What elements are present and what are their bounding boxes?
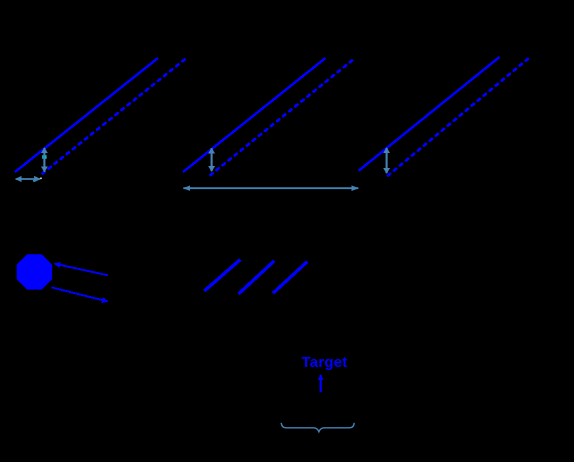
outgoing ray arrow (head away)	[51, 287, 108, 301]
target hatch segment 2	[239, 261, 275, 294]
pulse 1 solid line	[15, 58, 158, 172]
white dot at dashed start	[40, 177, 42, 179]
pulse 3 dashed echo line	[388, 58, 530, 176]
pulse 2 vertical gap double arrow	[211, 148, 213, 171]
target hatch segment 3	[273, 262, 307, 294]
pulse 2 dashed echo line	[211, 59, 355, 176]
pulse 1 dashed echo line	[43, 58, 187, 174]
pulse period long double arrow	[183, 187, 358, 189]
pulse 1 cyan ticks	[42, 155, 43, 159]
cyan dot on horizontal arrow	[33, 180, 34, 181]
radar source circle	[17, 254, 52, 289]
pulse 2 solid line	[183, 58, 326, 172]
pulse 1 vertical gap double arrow	[43, 148, 45, 172]
pulse 1 horizontal offset double arrow	[16, 178, 41, 180]
label arrow	[320, 375, 322, 393]
pulse 3 vertical gap double arrow	[386, 148, 388, 173]
target hatch segment 1	[204, 260, 240, 291]
svg-text:Target: Target	[302, 354, 348, 371]
pulse 3 solid line	[359, 57, 500, 171]
returning ray arrow (head toward circle)	[54, 264, 108, 276]
underbrace	[281, 423, 354, 432]
